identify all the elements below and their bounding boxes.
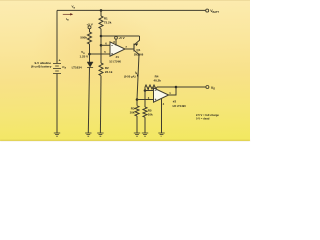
wire: pin6 — [101, 44, 110, 46]
wire: pin8 stub — [115, 39, 117, 45]
wire: R1 column — [100, 10, 102, 16]
svg-text:1/2 LT1490: 1/2 LT1490 — [172, 104, 186, 108]
current arrow IB top — [63, 13, 73, 15]
wire: R3 to ground — [136, 116, 138, 133]
ground (R5) — [142, 133, 148, 136]
svg-text:+5 V: +5 V — [87, 22, 93, 26]
svg-text:500k: 500k — [80, 36, 87, 40]
svg-text:VBATT: VBATT — [210, 9, 219, 14]
svg-text:1/2 LT1490: 1/2 LT1490 — [109, 60, 121, 64]
current arrow IB down — [137, 75, 139, 78]
node: emitter tap — [100, 35, 103, 38]
wire: R5 to ground — [144, 117, 146, 133]
svg-text:2.5 V = full charge: 2.5 V = full charge — [196, 113, 219, 117]
svg-text:8: 8 — [113, 40, 115, 44]
svg-text:Q1: Q1 — [136, 48, 140, 52]
svg-text:LT1634: LT1634 — [72, 65, 82, 69]
terminal +5V (pin 8) — [115, 36, 118, 39]
ground (R3) — [134, 133, 140, 136]
terminal VO — [206, 86, 209, 89]
terminal VBATT — [206, 9, 209, 12]
wire: circle to 500k — [89, 29, 91, 32]
wire: pin2 node down through R5 — [144, 91, 146, 108]
ground (battery) — [54, 133, 60, 136]
wire: output to VO terminal — [176, 86, 206, 88]
svg-text:22.1k: 22.1k — [105, 70, 113, 74]
Q1 emitter — [134, 36, 140, 45]
wire: R4 to output node — [157, 86, 176, 88]
plus sign pin5 — [111, 53, 113, 55]
terminal +5V (reference) — [88, 26, 91, 29]
svg-text:CB: CB — [62, 65, 66, 70]
node: top rail / R1 junction — [100, 9, 103, 12]
svg-text:VB: VB — [72, 5, 76, 10]
svg-text:7: 7 — [125, 45, 127, 49]
svg-text:40.2k: 40.2k — [153, 78, 161, 82]
node: pin6 tap — [100, 44, 103, 47]
ground (R2) — [97, 133, 103, 136]
plus sign pin3 — [155, 99, 157, 101]
resistor 500k — [88, 32, 92, 44]
svg-text:(0-50 μA): (0-50 μA) — [124, 74, 136, 78]
svg-text:+: + — [59, 59, 61, 63]
minus sign pin6 — [111, 44, 113, 46]
node: pin2 / R4 / R5 — [144, 89, 147, 92]
svg-text:VO: VO — [211, 86, 215, 91]
wire: collector down to pin3 node — [137, 54, 139, 99]
node: pin3 / R3 — [136, 98, 139, 101]
Q1 collector — [134, 50, 139, 54]
wire: node A column — [100, 29, 102, 63]
svg-text:10k: 10k — [148, 112, 153, 116]
svg-text:4: 4 — [163, 102, 165, 106]
minus sign pin2 — [155, 90, 157, 92]
transistor Q1 2N3906 base bar — [133, 44, 135, 52]
Q1 emitter arrow (PNP) — [135, 43, 138, 46]
resistor R4 40.2k — [145, 85, 157, 89]
resistor R3 10k — [135, 106, 139, 116]
node VR — [88, 53, 91, 56]
wire: pin5 from VR node — [90, 53, 111, 55]
wire: LT1634 to ground — [88, 67, 89, 133]
svg-text:2N3906: 2N3906 — [134, 53, 144, 57]
svg-text:(6-cell) battery: (6-cell) battery — [31, 65, 52, 69]
wire: 500k to VR node — [89, 44, 91, 62]
svg-text:IB: IB — [66, 17, 69, 22]
wire: pin4 to ground — [161, 98, 163, 133]
svg-text:1: 1 — [169, 91, 171, 95]
svg-text:73.2k: 73.2k — [104, 20, 112, 24]
battery CB 9V — [53, 64, 61, 74]
wire: op-amp2 output — [169, 87, 176, 95]
wire: battery column top — [56, 10, 58, 63]
op-amp U1a (1/2 LT1490 #1) — [110, 42, 125, 56]
wire: node up to R4 — [144, 87, 146, 91]
ground (LT1634) — [85, 133, 91, 136]
wire: top rail VB — [57, 9, 206, 11]
wire: down to R3 — [136, 100, 138, 106]
svg-text:0 V = dead: 0 V = dead — [196, 117, 210, 121]
svg-text:10k: 10k — [130, 111, 135, 115]
svg-text:#1: #1 — [116, 55, 120, 59]
wire: pin3 — [137, 99, 154, 101]
wire: emitter rail to node A — [101, 35, 140, 37]
wire: battery column bottom — [56, 74, 58, 134]
diode LT1634 shunt reference — [87, 62, 93, 67]
wire: pin2 — [145, 90, 154, 92]
wire: op-amp1 output to Q1 base — [125, 48, 134, 50]
resistor R1 73.2k — [99, 16, 103, 29]
svg-text:+5 V: +5 V — [118, 36, 124, 40]
resistor R5 10k — [143, 107, 147, 117]
op-amp U1b (1/2 LT1490 #2) — [154, 88, 169, 102]
svg-text:1.25 V: 1.25 V — [80, 54, 89, 58]
ground (pin4) — [158, 133, 164, 136]
wire: R2 to ground — [99, 76, 102, 133]
node: output / R4 — [175, 86, 178, 89]
resistor R2 22.1k — [99, 63, 103, 76]
